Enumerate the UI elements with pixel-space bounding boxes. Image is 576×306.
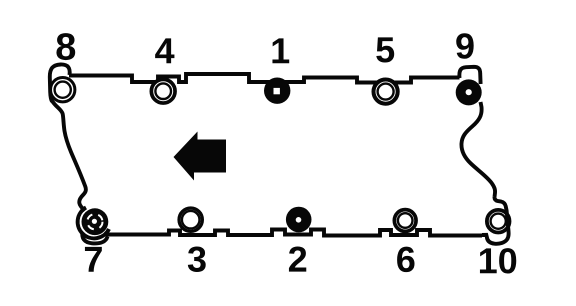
wire: right edge lower jog past bolt 10 (494, 197, 508, 226)
label 3 (188, 246, 206, 272)
label 7 (85, 247, 102, 272)
boss around bolt 7 (bottom-left mounting lug) (78, 208, 109, 239)
label 10 (480, 248, 516, 273)
bolt 9 (filled, white dot center) (456, 79, 482, 105)
bolt 10 (open, double ring) (487, 210, 510, 233)
bolt 6 (open, double ring) (394, 210, 416, 232)
wire: left edge descending curve (52, 100, 86, 211)
tab below bolt 10 (bottom-right lug) (482, 226, 509, 244)
wire: right edge S-curve (upper part) (461, 102, 495, 197)
boss around bolt 9 (top-right mounting lug) (459, 67, 480, 84)
bolt 7 (thick ring, dark center hub) (82, 208, 109, 235)
label 8 (56, 33, 75, 60)
wire: gasket bottom edge with tabs (106, 230, 482, 236)
bolt 5 (open, double ring) (374, 80, 398, 104)
wire: gasket top edge with notches (69, 74, 460, 83)
boss around bolt 8 (top-left mounting lug) (50, 64, 70, 101)
label 6 (397, 247, 414, 272)
bolt 3 (open, double ring) (179, 208, 202, 231)
arrow (direction indicator, pointing left) (174, 132, 227, 181)
label 4 (155, 38, 174, 63)
bolt 4 (open, double ring) (151, 79, 175, 103)
bolt 1 (filled, white square center) (264, 78, 290, 104)
label 5 (376, 37, 394, 62)
bolt 2 (filled, white dot center) (286, 207, 312, 233)
label 9 (456, 33, 473, 58)
bolt 8 (open, double ring) (51, 78, 75, 102)
label 2 (289, 246, 306, 271)
label 1 (272, 38, 289, 63)
tab below bolt 7 (82, 232, 107, 243)
